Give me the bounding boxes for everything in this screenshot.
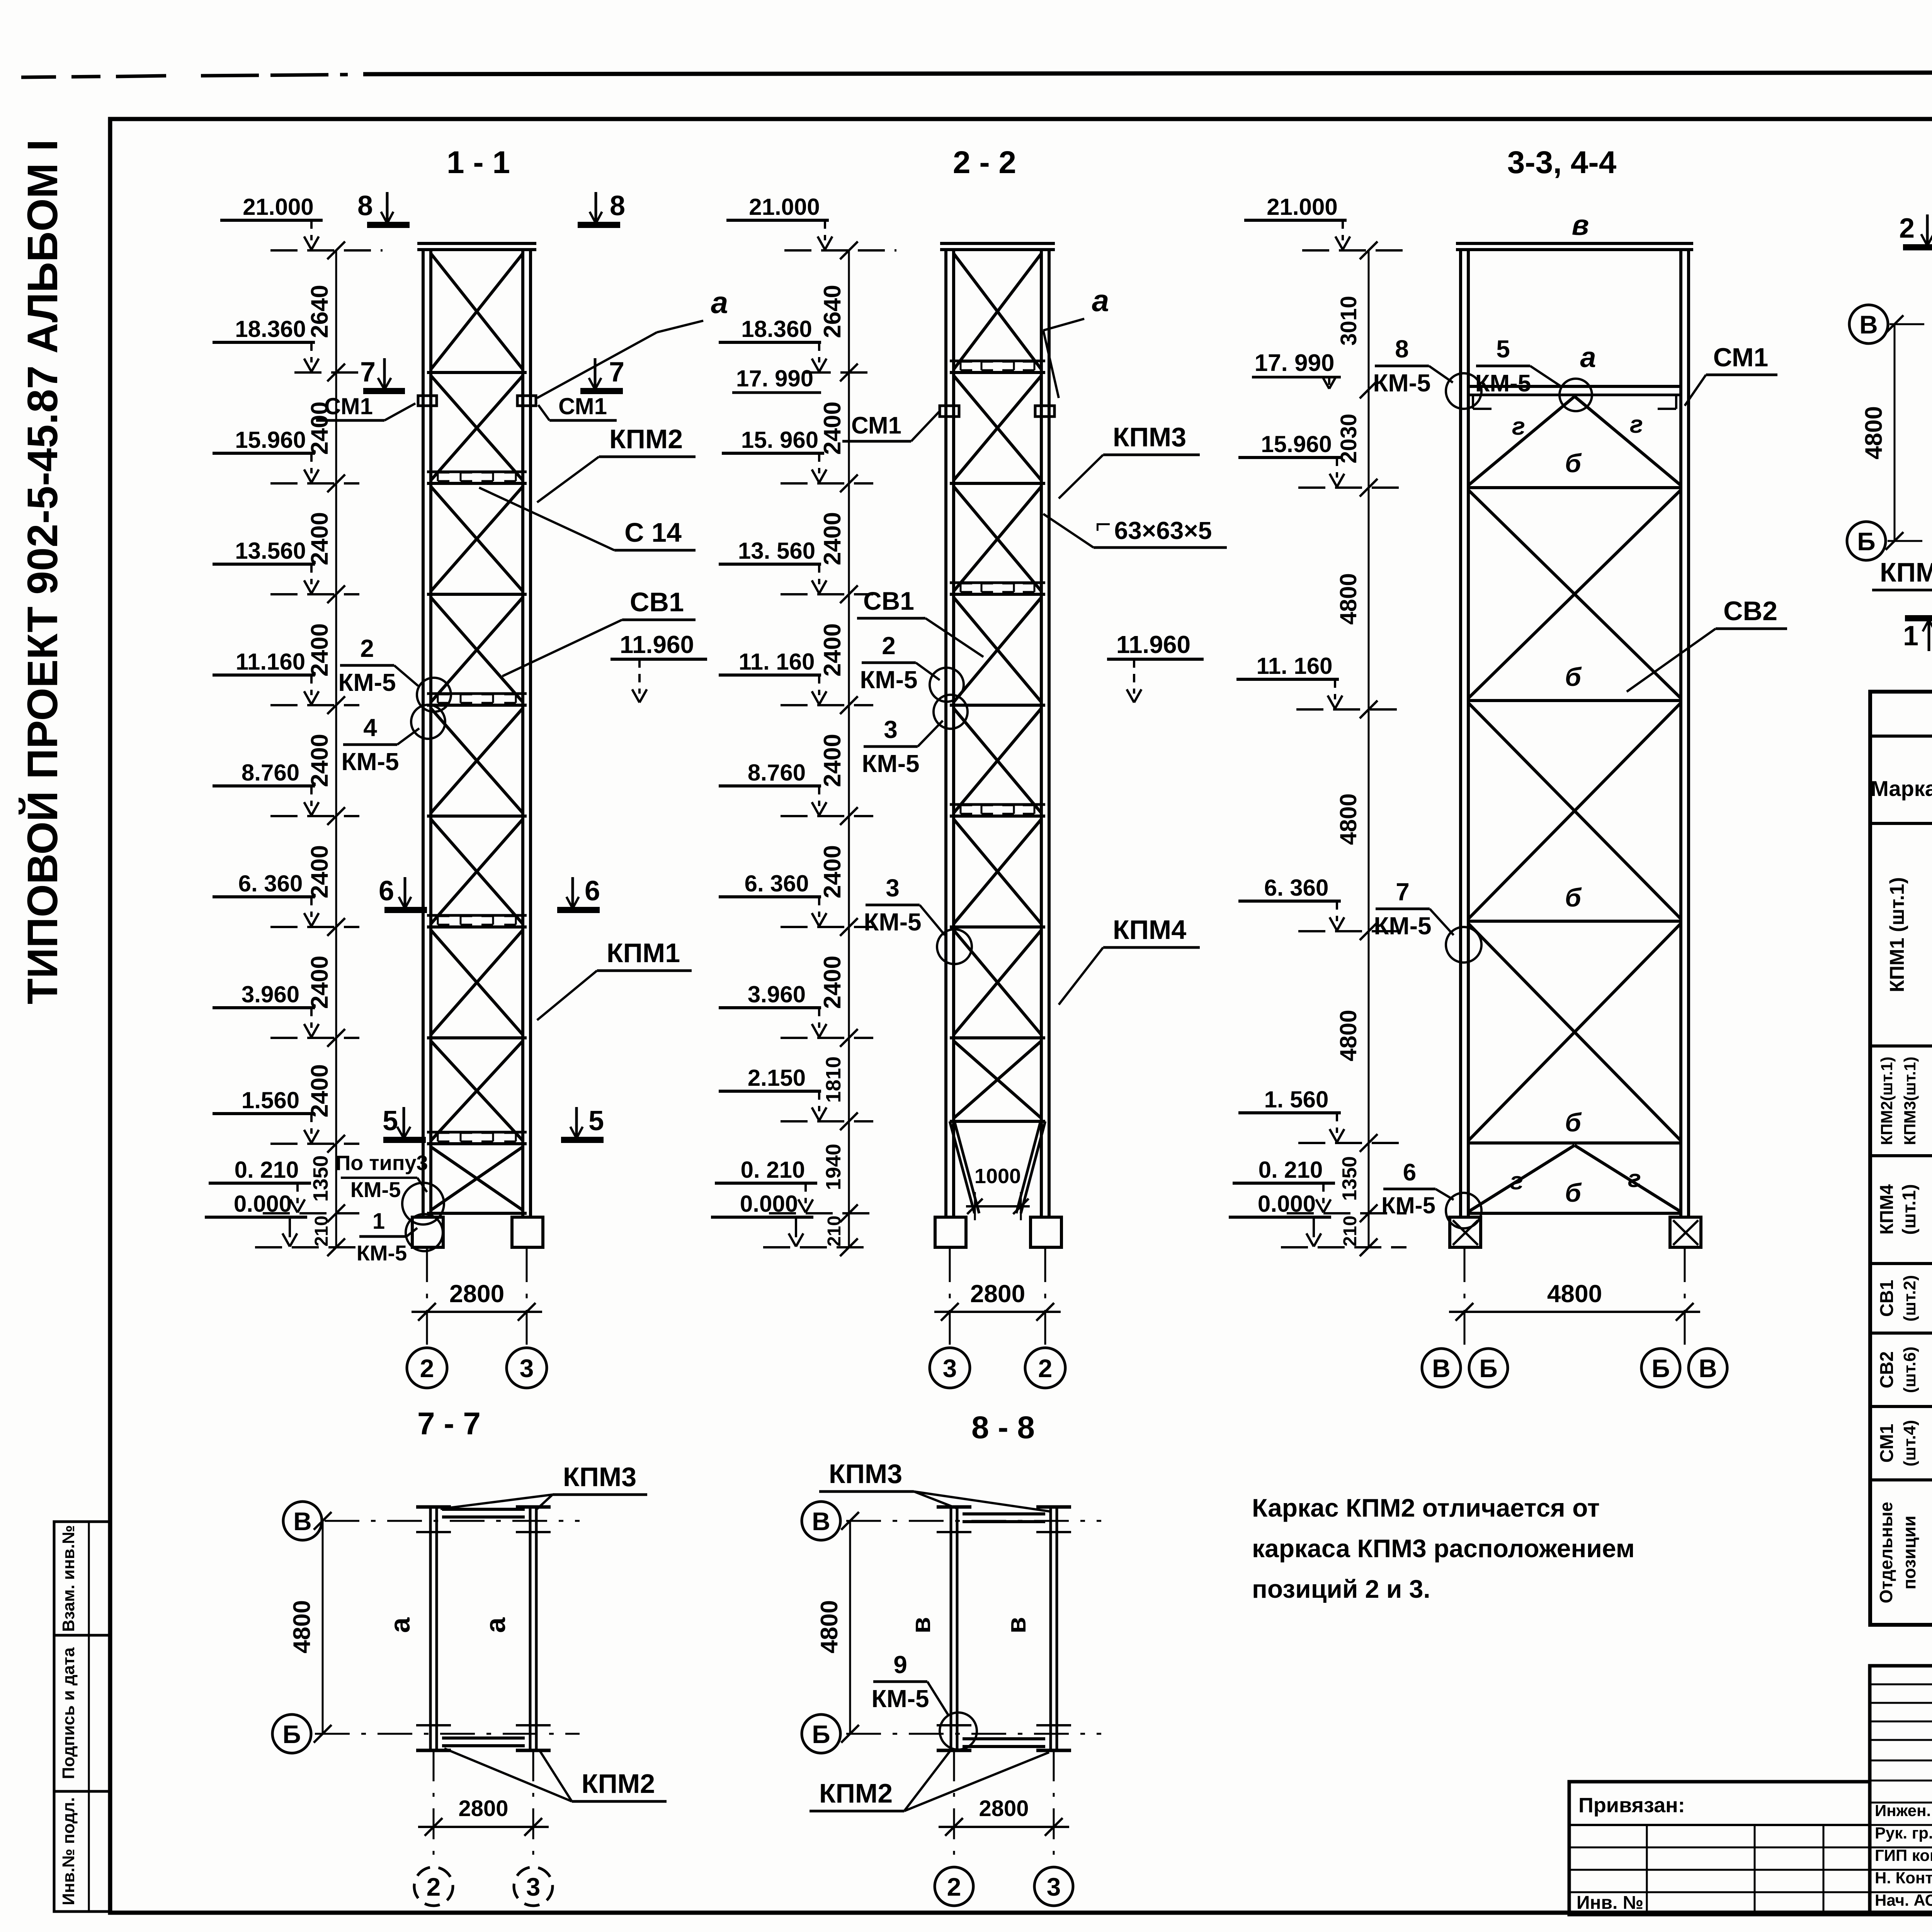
section marks 5 1-1 [383, 1137, 426, 1143]
svg-text:КПМ3: КПМ3 [829, 1459, 902, 1489]
svg-text:2400: 2400 [306, 734, 333, 787]
svg-text:15. 960: 15. 960 [741, 427, 818, 453]
tower 3-3 base plates [1450, 1217, 1481, 1247]
svg-text:8: 8 [1395, 335, 1409, 363]
svg-text:2400: 2400 [819, 512, 846, 565]
svg-text:В: В [812, 1507, 830, 1536]
svg-text:11.960: 11.960 [1116, 631, 1190, 658]
svg-text:3-3, 4-4: 3-3, 4-4 [1507, 145, 1617, 180]
svg-text:1: 1 [1903, 621, 1918, 651]
axis circles 2 3 of 8-8 [935, 1867, 973, 1906]
svg-text:1810: 1810 [822, 1056, 845, 1103]
svg-text:5: 5 [1496, 335, 1510, 363]
page top edge torn line [21, 77, 100, 77]
svg-text:1. 560: 1. 560 [1264, 1087, 1329, 1112]
plan 7-7 top beam [442, 1508, 525, 1511]
tower 3-3 X panel 1 [1468, 490, 1681, 698]
tower 2-2 CM1 splices [940, 406, 959, 417]
joint circles 1-1 bottom [402, 1183, 444, 1225]
section marks 7 1-1 [363, 388, 405, 394]
svg-text:С 14: С 14 [624, 517, 682, 548]
svg-text:2: 2 [360, 634, 374, 662]
svg-text:СМ1: СМ1 [324, 393, 373, 419]
svg-text:0. 210: 0. 210 [235, 1157, 299, 1183]
svg-text:КМ-5: КМ-5 [871, 1685, 929, 1713]
svg-text:1350: 1350 [309, 1155, 332, 1202]
tower 3-3 centerlines [1464, 1247, 1466, 1345]
svg-text:В: В [1859, 310, 1878, 339]
svg-text:В: В [1432, 1354, 1451, 1383]
tower 1-1 base plates [412, 1217, 443, 1247]
svg-text:2800: 2800 [458, 1796, 508, 1821]
svg-text:Б: Б [282, 1720, 301, 1748]
tower 3-3 bottom V panel [1468, 1145, 1575, 1212]
svg-text:2: 2 [1899, 213, 1915, 244]
svg-text:3.960: 3.960 [241, 981, 299, 1007]
svg-text:3: 3 [520, 1354, 534, 1383]
svg-text:2400: 2400 [819, 845, 846, 898]
joint circles 1-1 at 11.160 [417, 678, 451, 712]
svg-text:СМ1: СМ1 [1713, 343, 1769, 372]
svg-text:б: б [1565, 449, 1582, 478]
svg-text:8.760: 8.760 [241, 760, 299, 786]
plan 8-8 top beam [963, 1512, 1045, 1515]
svg-text:СВ2: СВ2 [1723, 596, 1777, 626]
svg-text:КПМ3: КПМ3 [563, 1462, 636, 1492]
svg-text:КМ-5: КМ-5 [1475, 370, 1531, 397]
svg-text:63×63×5: 63×63×5 [1114, 517, 1212, 544]
svg-text:2.150: 2.150 [748, 1065, 806, 1091]
privyazan block [1569, 1782, 1870, 1915]
svg-text:СВ1: СВ1 [863, 587, 914, 615]
svg-text:13.560: 13.560 [235, 538, 306, 564]
svg-text:СВ1: СВ1 [1877, 1280, 1897, 1317]
svg-text:4800: 4800 [1335, 573, 1361, 624]
svg-text:По типу3: По типу3 [335, 1151, 428, 1175]
plan 8-8 bottom beam [963, 1737, 1045, 1740]
svg-text:6: 6 [585, 876, 600, 906]
svg-text:17. 990: 17. 990 [736, 366, 813, 391]
svg-text:КМ-5: КМ-5 [864, 908, 921, 936]
tower 3-3 X panel 2 [1468, 703, 1681, 919]
svg-text:в: в [1572, 209, 1589, 241]
svg-text:г: г [1510, 1167, 1523, 1195]
svg-text:4800: 4800 [1861, 406, 1887, 459]
dim 2800 1-1 [412, 1311, 542, 1313]
svg-text:СВ2: СВ2 [1877, 1351, 1897, 1388]
svg-text:1000: 1000 [975, 1165, 1021, 1188]
svg-text:2: 2 [1038, 1354, 1053, 1383]
svg-text:2: 2 [420, 1354, 434, 1383]
svg-text:2640: 2640 [306, 285, 333, 338]
section marks 2 top 5-5 [1903, 244, 1932, 250]
plan 8-8 columns [950, 1507, 952, 1750]
svg-text:1 - 1: 1 - 1 [447, 145, 510, 180]
dim 4800 5-5 vertical [1894, 324, 1896, 541]
svg-text:3: 3 [884, 716, 898, 743]
svg-text:3.960: 3.960 [748, 981, 806, 1007]
plan 8-8 axis B2 line circle [846, 1733, 1101, 1735]
tower 3-3 X panel 3 [1468, 923, 1681, 1141]
plan 7-7 columns [429, 1507, 432, 1750]
svg-text:6. 360: 6. 360 [745, 871, 809, 896]
svg-text:КПМ3: КПМ3 [1113, 422, 1186, 452]
svg-text:КМ-5: КМ-5 [862, 750, 919, 777]
svg-text:2400: 2400 [819, 734, 846, 787]
svg-text:КПМ3(шт.1): КПМ3(шт.1) [1901, 1056, 1919, 1145]
svg-text:КПМ2: КПМ2 [609, 424, 683, 454]
svg-text:7: 7 [1396, 878, 1410, 906]
svg-text:КПМ1: КПМ1 [607, 938, 680, 968]
elements table outer border [1870, 692, 1932, 1625]
svg-text:3: 3 [886, 874, 900, 902]
svg-text:В: В [1699, 1354, 1717, 1383]
dim 1000 2-2 [974, 1192, 976, 1220]
left margin stamp boxes [54, 1522, 109, 1635]
svg-text:18.360: 18.360 [235, 316, 306, 342]
section marks 6 1-1 [384, 907, 427, 913]
svg-text:Б: Б [1479, 1354, 1497, 1383]
svg-text:б: б [1565, 1178, 1582, 1207]
elements table block lines [1870, 1044, 1932, 1048]
svg-text:9: 9 [893, 1651, 907, 1679]
svg-text:а: а [385, 1617, 416, 1633]
svg-text:3010: 3010 [1336, 296, 1361, 345]
svg-text:11.160: 11.160 [236, 649, 305, 675]
svg-text:2400: 2400 [306, 956, 333, 1009]
svg-text:КМ-5: КМ-5 [1374, 912, 1431, 940]
title block signature grid [1870, 1666, 1932, 1915]
svg-text:КПМ1 (шт.1): КПМ1 (шт.1) [1886, 877, 1908, 992]
plan 5-5 axis B2 line and circle [1888, 540, 1932, 542]
svg-text:КПМ1: КПМ1 [1880, 557, 1932, 587]
svg-text:2: 2 [947, 1872, 961, 1901]
svg-text:11. 160: 11. 160 [1257, 653, 1333, 679]
svg-text:СМ1: СМ1 [1877, 1424, 1897, 1463]
svg-text:Б: Б [1857, 527, 1875, 556]
svg-text:7: 7 [609, 357, 624, 388]
svg-text:Подпись и дата: Подпись и дата [59, 1647, 78, 1779]
svg-text:2640: 2640 [819, 285, 846, 338]
tower 2-2 centerlines [949, 1247, 951, 1345]
svg-text:2400: 2400 [306, 845, 333, 898]
tower 1-1 frame KPM1 [417, 242, 536, 245]
svg-text:ТИПОВОЙ ПРОЕКТ 902-5-45.87: ТИПОВОЙ ПРОЕКТ 902-5-45.87 АЛЬБОМ I [19, 139, 66, 1005]
svg-text:18.360: 18.360 [741, 316, 812, 342]
axis circles 3 2 of 2-2 [930, 1348, 970, 1388]
svg-text:б: б [1565, 662, 1582, 692]
svg-text:4: 4 [363, 714, 377, 742]
svg-text:1.560: 1.560 [241, 1087, 299, 1113]
svg-text:3: 3 [943, 1354, 957, 1383]
svg-text:СМ1: СМ1 [558, 393, 607, 419]
elements table header lines [1870, 735, 1932, 738]
section marks 1 bottom 5-5 [1905, 615, 1932, 621]
svg-text:3: 3 [1047, 1872, 1061, 1901]
svg-text:21.000: 21.000 [1267, 194, 1338, 220]
svg-text:Инжен.: Инжен. [1875, 1801, 1931, 1820]
svg-text:21.000: 21.000 [749, 194, 820, 220]
svg-text:г: г [1630, 410, 1643, 438]
svg-text:Б: Б [812, 1720, 830, 1748]
svg-text:4800: 4800 [289, 1600, 315, 1653]
tower 3-3 CM1 beam at 17.990 [1468, 385, 1681, 388]
svg-text:(шт.6): (шт.6) [1900, 1347, 1919, 1393]
svg-text:2400: 2400 [306, 1064, 333, 1117]
dim 2800 8-8 [953, 1750, 955, 1866]
axis circles 2 3 of 7-7 [414, 1867, 453, 1906]
svg-text:a: a [711, 285, 728, 320]
svg-text:(шт.2): (шт.2) [1900, 1275, 1919, 1321]
svg-text:0. 210: 0. 210 [741, 1157, 805, 1183]
svg-text:⌐: ⌐ [1095, 509, 1111, 539]
svg-text:2800: 2800 [979, 1796, 1029, 1821]
tower 1-1 column centerlines [426, 1247, 428, 1345]
svg-text:4800: 4800 [1335, 1010, 1361, 1061]
svg-text:3: 3 [526, 1872, 541, 1901]
svg-text:2: 2 [882, 632, 896, 660]
svg-text:каркаса КПМ3 расположение: каркаса КПМ3 расположением [1252, 1534, 1635, 1563]
svg-text:Каркас КПМ2 отличается: Каркас КПМ2 отличается от [1252, 1493, 1600, 1522]
tower 2-2 splayed legs [950, 1121, 975, 1213]
svg-text:КПМ2: КПМ2 [819, 1778, 893, 1808]
svg-text:в: в [906, 1617, 936, 1633]
svg-text:8: 8 [357, 190, 373, 221]
svg-text:Марка: Марка [1871, 776, 1932, 801]
svg-text:8 - 8: 8 - 8 [971, 1410, 1035, 1445]
svg-text:8: 8 [610, 190, 625, 221]
svg-text:Инв. №: Инв. № [1577, 1893, 1643, 1913]
dim chain 1-1 [335, 250, 337, 1247]
dim 2800 2-2 [934, 1311, 1061, 1313]
svg-text:15.960: 15.960 [1261, 431, 1332, 457]
svg-text:КМ-5: КМ-5 [350, 1177, 401, 1202]
svg-text:0.000: 0.000 [234, 1191, 292, 1217]
svg-text:Б: Б [1651, 1354, 1670, 1383]
svg-text:б: б [1565, 883, 1582, 912]
svg-text:КМ-5: КМ-5 [357, 1241, 407, 1265]
section marks 8 top 1-1 [367, 222, 410, 228]
svg-text:Взам. инв.№: Взам. инв.№ [59, 1525, 78, 1632]
svg-text:21.000: 21.000 [243, 194, 314, 220]
svg-text:КМ-5: КМ-5 [1381, 1192, 1435, 1218]
svg-text:а: а [480, 1617, 511, 1633]
svg-text:1940: 1940 [822, 1144, 845, 1190]
svg-text:7: 7 [360, 357, 376, 388]
axis circles B B of 3-3 [1422, 1349, 1461, 1387]
dim chain 3-3 [1368, 250, 1370, 1247]
svg-text:позиции: позиции [1899, 1515, 1919, 1589]
svg-text:11.960: 11.960 [620, 631, 694, 658]
svg-text:КМ-5: КМ-5 [1373, 369, 1430, 397]
svg-text:2400: 2400 [306, 512, 333, 565]
plan 7-7 axis B2 line circle [315, 1733, 580, 1735]
tower 3-3 top V-panel diagonals [1468, 396, 1575, 485]
svg-text:0.000: 0.000 [740, 1191, 798, 1217]
svg-text:Отдельные: Отдельные [1876, 1502, 1896, 1604]
dim 4800 3-3 [1449, 1311, 1700, 1313]
svg-text:Привязан:: Привязан: [1578, 1794, 1685, 1817]
svg-text:СМ1: СМ1 [851, 412, 901, 439]
plan 7-7 axis B line circle [325, 1520, 580, 1522]
plan 5-5 axis B line and circle [1889, 323, 1932, 325]
svg-text:6: 6 [379, 876, 394, 906]
svg-text:КМ-5: КМ-5 [341, 748, 399, 776]
tower 2-2 base plates [935, 1217, 966, 1247]
svg-text:КПМ2(шт.1): КПМ2(шт.1) [1878, 1056, 1896, 1145]
svg-text:Н. Контр.: Н. Контр. [1875, 1869, 1932, 1887]
svg-text:6. 360: 6. 360 [1264, 875, 1329, 901]
svg-text:5: 5 [588, 1105, 604, 1136]
svg-text:б: б [1565, 1108, 1582, 1137]
svg-text:КПМ4: КПМ4 [1113, 915, 1186, 945]
svg-text:210: 210 [311, 1216, 332, 1247]
svg-text:11. 160: 11. 160 [739, 649, 815, 675]
plan 7-7 bottom beam [442, 1736, 525, 1740]
svg-text:2400: 2400 [819, 956, 846, 1009]
dim 4800 7-7 [322, 1521, 324, 1734]
svg-text:позиций 2 и 3.: позиций 2 и 3. [1252, 1575, 1430, 1603]
svg-text:4800: 4800 [1335, 793, 1361, 845]
svg-text:ГИП конс.: ГИП конс. [1875, 1846, 1932, 1864]
tower 2-2 frame [940, 242, 1055, 245]
svg-text:a: a [1580, 341, 1596, 373]
svg-text:210: 210 [1340, 1216, 1361, 1247]
svg-text:17. 990: 17. 990 [1255, 350, 1335, 376]
svg-text:в: в [1001, 1617, 1031, 1633]
svg-text:4800: 4800 [1547, 1280, 1602, 1308]
svg-text:6. 360: 6. 360 [238, 871, 303, 896]
svg-text:2800: 2800 [970, 1280, 1025, 1308]
svg-text:Нач. АСО: Нач. АСО [1875, 1891, 1932, 1909]
tower 3-3 columns and cap [1456, 242, 1693, 245]
svg-text:13. 560: 13. 560 [738, 538, 815, 564]
axis circles 2 3 of 1-1 [407, 1348, 447, 1388]
svg-text:8.760: 8.760 [748, 760, 806, 786]
svg-text:0. 210: 0. 210 [1259, 1157, 1323, 1183]
svg-text:2800: 2800 [449, 1280, 504, 1308]
svg-text:1350: 1350 [1338, 1156, 1361, 1201]
svg-text:СВ1: СВ1 [630, 587, 684, 617]
svg-text:2: 2 [427, 1872, 441, 1901]
svg-text:г: г [1512, 412, 1525, 440]
svg-text:КМ-5: КМ-5 [860, 666, 917, 694]
svg-text:КПМ4: КПМ4 [1877, 1184, 1897, 1235]
svg-text:В: В [293, 1507, 312, 1536]
svg-text:2400: 2400 [819, 401, 846, 455]
svg-text:0.000: 0.000 [1258, 1191, 1316, 1217]
tower 1-1 CM1 splice plates [418, 396, 437, 406]
svg-text:6: 6 [1403, 1159, 1416, 1186]
svg-text:Рук. гр.: Рук. гр. [1875, 1824, 1932, 1842]
svg-text:2400: 2400 [306, 623, 333, 677]
svg-text:15.960: 15.960 [235, 427, 306, 453]
svg-text:(шт.1): (шт.1) [1899, 1184, 1920, 1235]
svg-text:2400: 2400 [819, 623, 846, 677]
dim chain 2-2 [848, 250, 850, 1247]
svg-text:КМ-5: КМ-5 [338, 668, 396, 696]
dim 2800 7-7 [433, 1750, 435, 1866]
svg-text:7 - 7: 7 - 7 [417, 1406, 481, 1441]
svg-text:a: a [1092, 283, 1109, 318]
svg-text:2 - 2: 2 - 2 [953, 145, 1016, 180]
dim 4800 8-8 [849, 1521, 851, 1734]
plan 8-8 axis B line circle [846, 1520, 1101, 1522]
svg-text:1: 1 [372, 1209, 385, 1234]
svg-text:г: г [1628, 1165, 1641, 1192]
svg-text:4800: 4800 [816, 1600, 843, 1653]
svg-text:5: 5 [383, 1105, 398, 1136]
svg-text:210: 210 [824, 1216, 845, 1247]
svg-text:КПМ2: КПМ2 [582, 1769, 655, 1799]
svg-text:(шт.4): (шт.4) [1900, 1420, 1919, 1466]
svg-text:Инв.№ подл.: Инв.№ подл. [59, 1797, 78, 1905]
